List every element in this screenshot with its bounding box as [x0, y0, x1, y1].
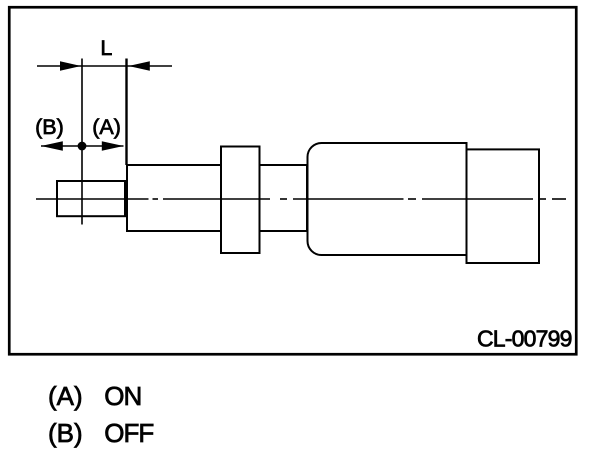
svg-text:(A): (A) [92, 115, 121, 139]
svg-text:(B): (B) [35, 115, 64, 139]
svg-text:(B): (B) [48, 418, 83, 448]
svg-text:ON: ON [104, 381, 141, 411]
svg-text:OFF: OFF [104, 418, 153, 448]
svg-text:(A): (A) [48, 381, 83, 411]
svg-text:CL-00799: CL-00799 [477, 326, 572, 352]
svg-text:L: L [100, 36, 112, 60]
